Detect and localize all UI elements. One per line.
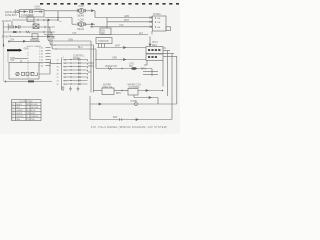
- svg-text:18: 18: [57, 70, 59, 72]
- svg-text:GRN: GRN: [124, 16, 129, 18]
- svg-text:BRN: BRN: [141, 68, 146, 70]
- svg-text:REG: REG: [152, 45, 157, 47]
- svg-text:BLU: BLU: [78, 47, 83, 49]
- svg-text:FUSE BOX: FUSE BOX: [5, 15, 17, 17]
- svg-text:GRN: GRN: [24, 49, 29, 51]
- svg-text:16: 16: [57, 66, 59, 68]
- svg-text:12: 12: [57, 59, 59, 61]
- svg-text:GRAY: GRAY: [31, 112, 37, 115]
- svg-text:WHITE: WHITE: [16, 113, 23, 115]
- svg-text:24: 24: [57, 80, 59, 82]
- svg-text:WIPER SW: WIPER SW: [105, 66, 118, 68]
- svg-text:BL: BL: [27, 110, 29, 112]
- svg-text:FUSES: FUSES: [153, 14, 161, 16]
- svg-text:F.M. VILLA DIESEL (WIRING DIAG: F.M. VILLA DIESEL (WIRING DIAGRAM, 12V S…: [91, 125, 167, 129]
- svg-text:RELAY: RELAY: [35, 7, 42, 10]
- svg-text:FUEL GA: FUEL GA: [103, 86, 113, 89]
- svg-text:DIMMER: DIMMER: [30, 40, 40, 42]
- svg-text:ORANGE: ORANGE: [31, 115, 40, 118]
- svg-text:VOLT: VOLT: [152, 42, 158, 44]
- svg-text:ALT: ALT: [139, 32, 144, 35]
- svg-text:GREEN: GREEN: [16, 110, 23, 112]
- svg-text:BRN: BRN: [116, 93, 121, 95]
- svg-text:COLOR CODE: COLOR CODE: [19, 101, 33, 103]
- svg-text:W: W: [12, 113, 14, 115]
- svg-text:WHT: WHT: [115, 46, 121, 48]
- svg-text:BROWN: BROWN: [31, 104, 39, 106]
- svg-text:HIGH: HIGH: [79, 6, 85, 8]
- svg-text:STARTER: STARTER: [98, 40, 109, 43]
- svg-text:26: 26: [57, 84, 59, 86]
- svg-text:BEAM: BEAM: [78, 28, 85, 31]
- svg-text:LIGHT: LIGHT: [27, 15, 34, 17]
- svg-text:22: 22: [57, 77, 59, 79]
- svg-text:CONTROL: CONTROL: [129, 87, 141, 89]
- svg-text:BEAM: BEAM: [78, 15, 85, 18]
- svg-text:JW BATT: JW BATT: [2, 36, 12, 39]
- svg-text:WHT: WHT: [124, 20, 130, 22]
- svg-text:14: 14: [57, 63, 59, 65]
- svg-text:YELLOW: YELLOW: [31, 107, 39, 109]
- svg-text:PURPLE: PURPLE: [16, 116, 24, 118]
- svg-text:20: 20: [57, 73, 59, 75]
- svg-text:BLUE: BLUE: [31, 110, 36, 112]
- svg-text:HORN: HORN: [131, 101, 138, 103]
- svg-text:PANEL: PANEL: [73, 57, 81, 60]
- svg-text:20A: 20A: [10, 39, 15, 42]
- svg-text:GRN: GRN: [112, 58, 117, 60]
- svg-text:BLACK: BLACK: [16, 103, 23, 106]
- svg-text:LOW: LOW: [79, 19, 85, 21]
- svg-text:JW BATT: JW BATT: [2, 20, 12, 23]
- svg-text:RADIO AC: RADIO AC: [5, 11, 16, 14]
- svg-text:GRN: GRN: [68, 39, 73, 41]
